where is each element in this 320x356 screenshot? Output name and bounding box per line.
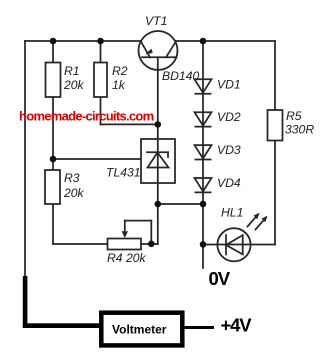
svg-text:homemade-circuits.com: homemade-circuits.com [19, 109, 154, 124]
wire right rail vertical [274, 41, 276, 245]
svg-text:20k: 20k [63, 186, 85, 200]
transistor VT1 circle [139, 31, 178, 70]
svg-text:Voltmeter: Voltmeter [112, 323, 167, 337]
transistor VT1 base lead inside [157, 57, 159, 70]
wire R3 bottom lead [52, 204, 54, 244]
svg-text:R5: R5 [286, 109, 302, 123]
svg-text:20k: 20k [63, 78, 85, 92]
wire R1 top lead [52, 41, 54, 63]
R4 wiper arrowhead [122, 231, 128, 238]
node dot R1 top [50, 38, 57, 45]
resistor R3 body [45, 170, 60, 204]
LED HL1 circle [217, 228, 250, 261]
node dot R4 wiper junction [148, 241, 155, 248]
wire R3 top lead [52, 159, 54, 170]
node dot diode bottom [200, 201, 207, 208]
wire LED horizontal [203, 244, 275, 246]
wire R2 bottom lead [100, 97, 102, 124]
resistor R1 body [46, 63, 61, 98]
resistor R2 body [94, 63, 107, 98]
wire TL431 anode to diode column [158, 203, 203, 205]
node dot LED left [200, 241, 207, 248]
svg-text:BD140: BD140 [162, 69, 199, 83]
node dot base/R2 [155, 121, 162, 128]
svg-text:TL431: TL431 [106, 166, 141, 180]
wire thick ground vertical [23, 276, 28, 328]
LED HL1 triangle [226, 235, 243, 254]
svg-text:0V: 0V [209, 268, 231, 289]
wire top left rail to transistor emitter [25, 40, 141, 42]
svg-text:1k: 1k [112, 78, 126, 92]
TL431 cathode bar [147, 151, 168, 153]
node dot R2 top [97, 38, 104, 45]
TL431 vertical through line [157, 139, 159, 183]
diode VD2 [195, 112, 212, 126]
LED arrowhead 1 [254, 213, 260, 220]
wire R4 wiper down to right terminal [150, 221, 152, 244]
svg-text:VD2: VD2 [217, 110, 241, 124]
svg-text:HL1: HL1 [221, 206, 243, 220]
transistor VT1 emitter line [141, 41, 150, 57]
wire transistor collector to right rail [176, 40, 275, 42]
transistor VT1 emitter arrow [145, 49, 153, 55]
wire R2 to base node [101, 123, 158, 125]
transistor VT1 collector line [166, 41, 176, 57]
svg-text:VT1: VT1 [145, 14, 167, 28]
wire left rail vertical [24, 41, 26, 277]
wire R4 right terminal [141, 243, 158, 245]
TL431 box U1 [141, 139, 175, 183]
wire node to TL431 ref [52, 158, 151, 160]
wire transistor base down to TL431 [157, 57, 159, 139]
resistor R5 body [268, 110, 283, 141]
LED HL1 emission arrow 2 [256, 218, 267, 230]
wire R1 bottom lead to node [52, 97, 54, 159]
svg-text:VD3: VD3 [217, 143, 241, 157]
node dot TL431 anode [155, 201, 162, 208]
wire R2 top lead [100, 41, 102, 63]
svg-text:VD1: VD1 [217, 78, 241, 92]
wire diode column [202, 41, 204, 268]
node dot diode top [200, 38, 207, 45]
svg-text:R1: R1 [64, 64, 80, 78]
node dot ref/R3 [50, 156, 57, 163]
LED HL1 emission arrow 1 [248, 215, 259, 227]
svg-text:R2: R2 [112, 64, 128, 78]
transistor VT1 base bar [142, 56, 177, 58]
wire voltmeter right lead [185, 326, 215, 329]
wire R4 wiper horizontal [125, 220, 152, 222]
diode VD3 [195, 145, 212, 159]
svg-text:330R: 330R [285, 123, 314, 137]
wire R4 wiper vertical arrow shaft [124, 221, 126, 232]
LED arrowhead 2 [262, 216, 268, 223]
voltmeter box [101, 313, 182, 346]
wire R3 to R4 left [53, 243, 108, 245]
TL431 cathode bar tick [167, 152, 169, 157]
LED HL1 cathode bar [225, 235, 227, 254]
svg-text:+4V: +4V [221, 315, 253, 336]
diode VD4 [195, 178, 212, 192]
svg-text:R4 20k: R4 20k [107, 251, 147, 265]
wire TL431 anode down [157, 183, 159, 244]
LED HL1 wire through [217, 244, 250, 246]
potentiometer R4 body [108, 239, 142, 250]
TL431 triangle [148, 153, 169, 168]
svg-text:VD4: VD4 [217, 176, 241, 190]
diode VD1 [195, 79, 212, 93]
svg-text:R3: R3 [64, 171, 80, 185]
wire thick ground horizontal [23, 323, 101, 328]
